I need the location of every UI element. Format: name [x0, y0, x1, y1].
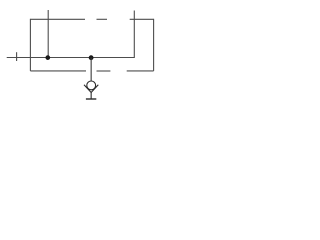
check valve outlet stem: [90, 93, 92, 100]
tank terminal bar: [86, 98, 96, 100]
check valve ball: [87, 81, 96, 90]
right branch vertical wire: [133, 11, 135, 59]
enclosure right vertical wire: [153, 19, 155, 71]
port terminal tick: [16, 52, 18, 61]
enclosure bottom line middle dash: [97, 70, 111, 72]
junction node left: [45, 55, 50, 60]
enclosure bottom line right solid segment: [127, 70, 154, 72]
enclosure top line middle dash: [97, 18, 108, 20]
enclosure top line left solid segment: [30, 18, 85, 20]
junction node right: [89, 55, 94, 60]
check valve inlet wire: [90, 58, 92, 81]
enclosure top line right solid segment: [130, 18, 154, 20]
enclosure left vertical wire: [29, 19, 31, 71]
left branch vertical wire: [47, 10, 49, 58]
middle horizontal supply wire: [7, 57, 135, 59]
enclosure bottom line left solid segment: [30, 70, 86, 72]
check valve seat: [84, 85, 98, 93]
